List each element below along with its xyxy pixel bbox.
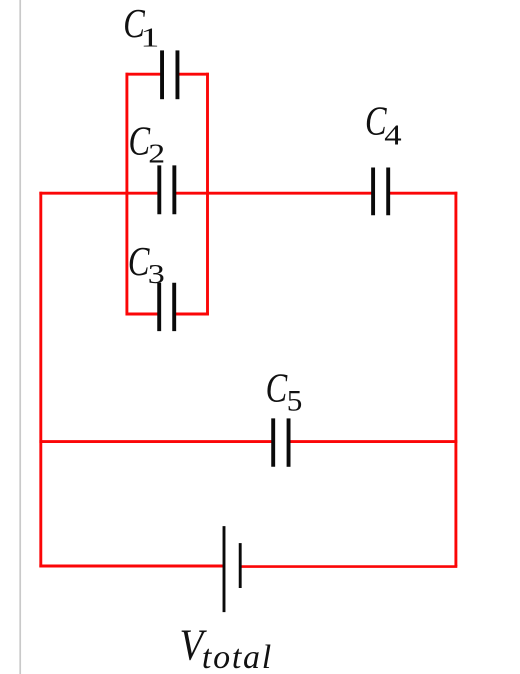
label C3 [128, 239, 165, 289]
wire: inner loop bottom left segment (to C3) [126, 313, 160, 316]
svg-text:4: 4 [384, 119, 401, 150]
wire: top rail left segment (node A to C2) [39, 192, 159, 195]
wire: inner loop top left segment (to C1) [126, 73, 163, 76]
wire: bottom rail right segment (battery to right side) [240, 565, 457, 568]
svg-text:C: C [266, 366, 289, 412]
wire: inner loop right side [206, 73, 209, 316]
label C4 [365, 99, 402, 151]
wire: outer loop right side [454, 192, 457, 567]
wire: inner loop left side [125, 73, 128, 316]
label C1 [123, 1, 159, 53]
capacitor C1 [162, 50, 177, 99]
wire: top rail right segment (C4 to node B) [388, 192, 457, 195]
svg-text:1: 1 [140, 24, 159, 53]
svg-text:5: 5 [287, 384, 303, 417]
wire: middle rail left segment (to C5) [39, 440, 273, 443]
label V_total [180, 620, 273, 674]
capacitor C4 [373, 168, 388, 216]
battery V_total [224, 526, 240, 612]
svg-text:2: 2 [148, 137, 165, 168]
svg-text:3: 3 [148, 258, 165, 289]
wire: middle rail right segment (C5 to right side) [289, 440, 458, 443]
label C2 [129, 119, 166, 169]
label C5 [266, 366, 303, 417]
wire: inner loop bottom right segment (C3 to corner) [174, 313, 209, 316]
capacitor C2 [159, 165, 174, 214]
wire: top rail middle segment (C2 to C4) [174, 192, 373, 195]
wire: outer loop left side [39, 192, 42, 568]
wire: inner loop top right segment (C1 to corner) [177, 73, 209, 76]
capacitor C5 [273, 418, 288, 466]
capacitor C3 [159, 283, 174, 331]
wire: bottom rail left segment (to battery) [39, 565, 224, 568]
svg-text:total: total [202, 639, 273, 674]
